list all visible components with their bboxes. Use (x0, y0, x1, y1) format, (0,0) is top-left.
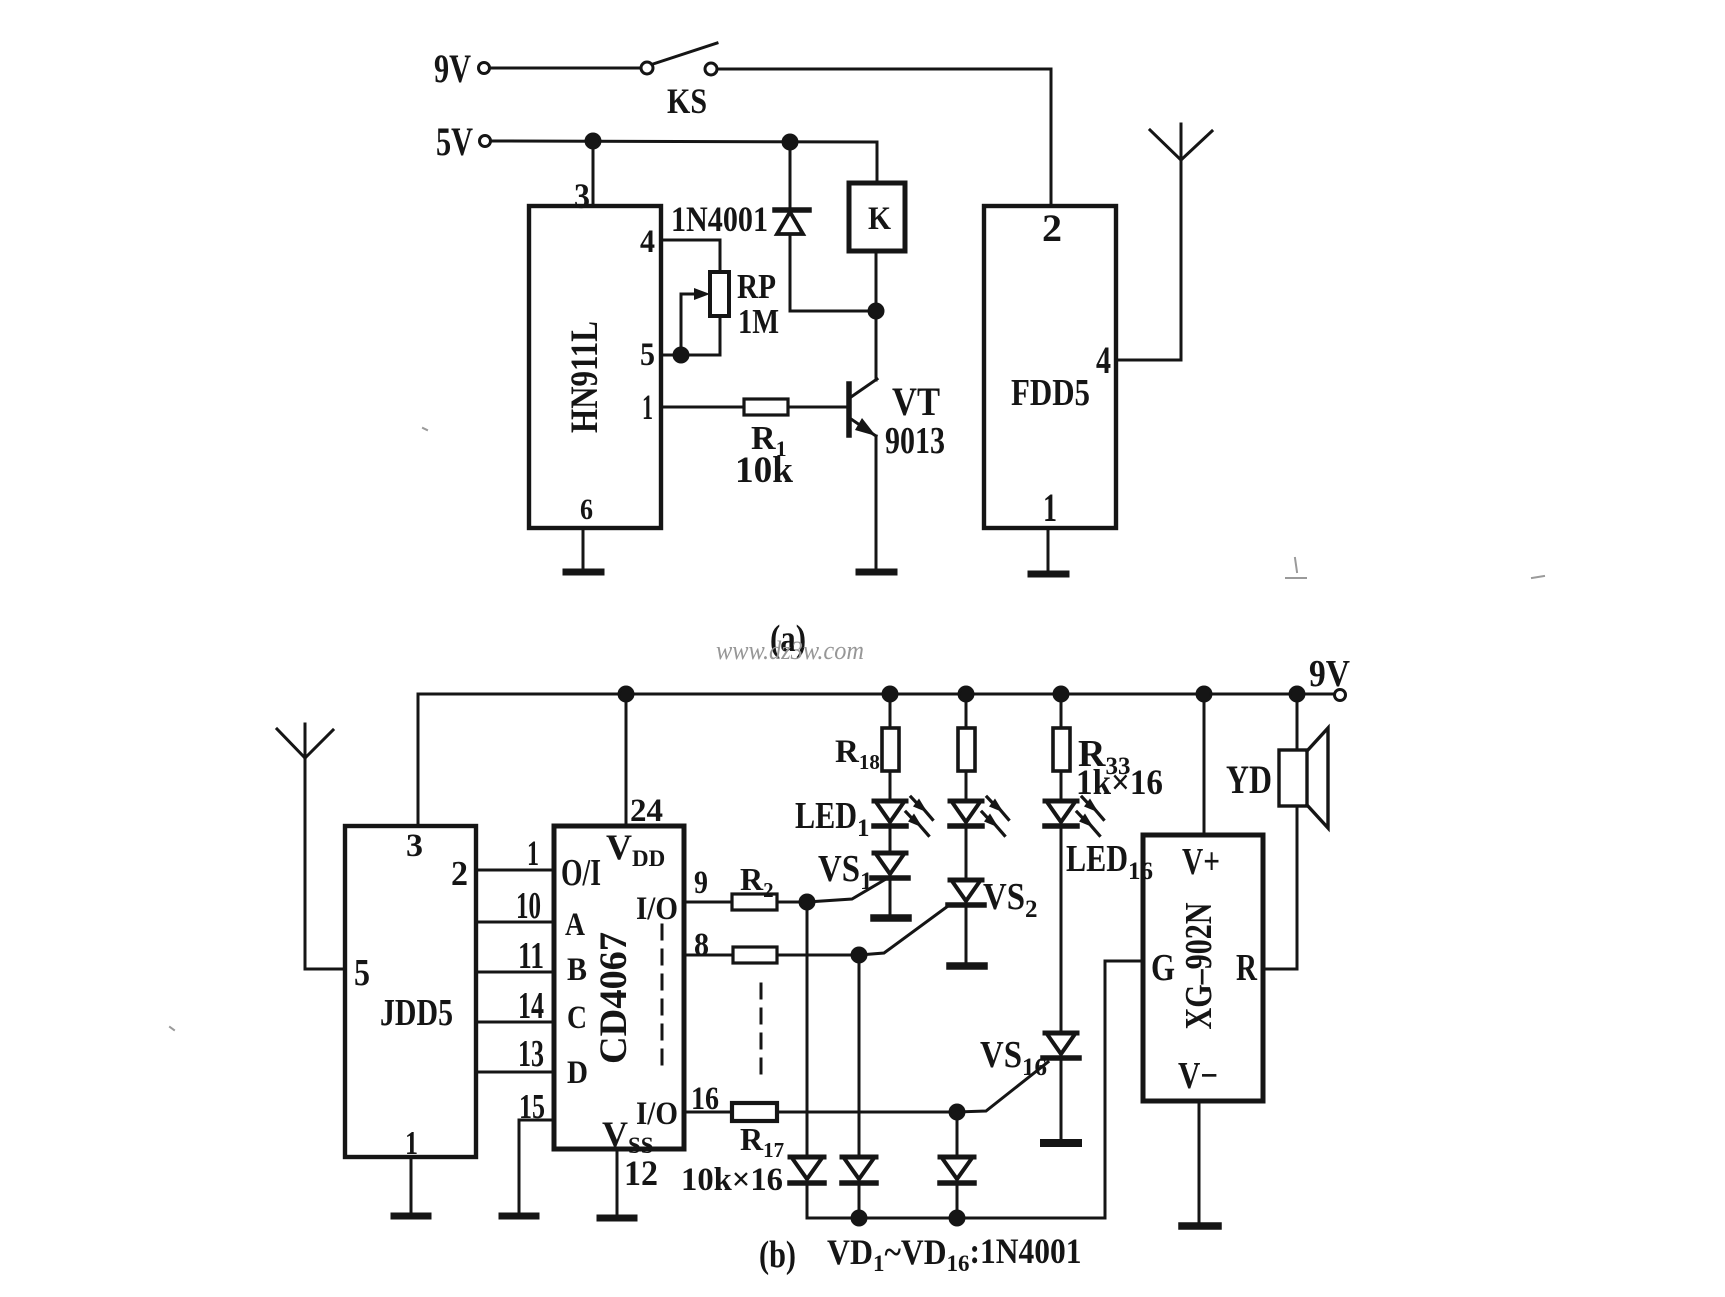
svg-text:5V: 5V (436, 119, 473, 164)
junction bus V+ (1197, 687, 1211, 701)
ground under XG-902N (1182, 1222, 1218, 1230)
junction node2 (852, 948, 866, 962)
wire VD16 to bottom rail (956, 1184, 959, 1218)
dashed line between rows (760, 984, 763, 1076)
wire pin2 to O/I (476, 869, 554, 872)
wire VD2 to bottom rail (858, 1184, 861, 1218)
svg-text:16: 16 (691, 1081, 719, 1117)
wire VS1 cathode (889, 880, 892, 913)
svg-text:5: 5 (354, 952, 370, 994)
wire R1 to VT base (788, 406, 847, 409)
svg-text:HN911L: HN911L (563, 321, 606, 433)
ground under pin12 (600, 1215, 634, 1222)
svg-text:VD1~VD16:1N4001: VD1~VD16:1N4001 (827, 1231, 1082, 1276)
svg-text:K: K (868, 201, 891, 237)
wire R19 to LED2 (965, 771, 968, 801)
wire LED16 to VS16 (1060, 828, 1063, 1033)
svg-text:1M: 1M (738, 302, 779, 341)
ground bar under VS1 (874, 914, 908, 922)
wire VS2 cathode (965, 907, 968, 961)
wire JDD5 pin1 to ground (410, 1157, 413, 1212)
svg-text:KS: KS (667, 81, 707, 121)
svg-text:B: B (567, 952, 587, 988)
junction on 5V rail at diode (783, 135, 797, 149)
svg-text:www.dz3w.com: www.dz3w.com (716, 636, 864, 665)
svg-text:24: 24 (630, 793, 663, 829)
ground under HN911L (566, 569, 601, 576)
wire pin1 to R1 (661, 406, 744, 409)
junction node1 (800, 895, 814, 909)
resistor R33 (1053, 728, 1070, 771)
wire diode bottom to collector node (790, 310, 876, 313)
svg-text:RP: RP (737, 267, 776, 306)
thyristor VS2 (859, 880, 984, 955)
wire pin3 of HN911L (592, 141, 595, 206)
svg-text:13: 13 (518, 1033, 544, 1075)
junction on 5V rail at pin3 (586, 134, 600, 148)
svg-text:14: 14 (518, 985, 544, 1027)
IC JDD5 box (345, 826, 476, 1157)
wire V+ to bus (1203, 694, 1206, 835)
wire R33 to LED16 (1060, 771, 1063, 801)
stray scan marks (170, 428, 1544, 1030)
wire 9V to switch (490, 67, 641, 70)
wire RP bottom to pin5 (719, 316, 722, 355)
resistor R8 (733, 947, 777, 963)
resistor R17 (732, 1103, 777, 1121)
svg-text:2: 2 (1042, 207, 1062, 250)
svg-text:O/I: O/I (561, 852, 601, 894)
branch 1: wire bus to R18 (889, 694, 892, 728)
wire switch to FDD5 pin2 (717, 69, 1051, 206)
node 5V terminal (480, 136, 491, 147)
branch 2: wire bus to R19 (965, 694, 968, 728)
svg-text:YD: YD (1226, 757, 1272, 802)
IC CD4067 box (554, 826, 684, 1149)
wire C pin14 (476, 1021, 554, 1024)
svg-text:10k: 10k (735, 450, 793, 491)
svg-text:VS16: VS16 (980, 1034, 1047, 1081)
svg-text:VT: VT (892, 379, 940, 424)
junction pin5 (674, 348, 688, 362)
wire 5V to K top (876, 142, 879, 183)
svg-text:1: 1 (642, 387, 653, 427)
wire pin4 to antenna (1116, 160, 1181, 360)
svg-text:R17: R17 (740, 1121, 784, 1162)
svg-text:4: 4 (1096, 339, 1111, 382)
wire V- to ground (1198, 1101, 1201, 1222)
resistor R2 (732, 894, 777, 910)
wire VS16 cathode (1060, 1060, 1063, 1138)
relay coil K (849, 183, 905, 251)
diode VD2 (842, 1157, 876, 1183)
wire pin16 to R17 (684, 1111, 732, 1114)
svg-text:A: A (565, 907, 585, 943)
junction bus R33 (1054, 687, 1068, 701)
svg-text:(b): (b) (759, 1234, 796, 1276)
junction VD2 bottom (852, 1211, 866, 1225)
svg-text:9013: 9013 (885, 420, 945, 462)
wire node16 down to VD16 (956, 1112, 959, 1157)
node 9V terminal (b) (1335, 690, 1346, 701)
svg-text:R: R (1236, 947, 1257, 989)
resistor R18 (882, 728, 899, 771)
svg-text:8: 8 (694, 927, 709, 963)
svg-text:XG–902N: XG–902N (1178, 903, 1220, 1030)
svg-text:10: 10 (516, 885, 541, 927)
wire LED2 to VS2 (965, 828, 968, 880)
wire speaker to bus (1296, 694, 1299, 750)
LED LED1 (874, 797, 933, 836)
node 9V terminal (479, 63, 490, 74)
wire LED1 to VS1 (889, 828, 892, 853)
wire 9V bus (418, 694, 1334, 826)
wiper arrow of RP (681, 294, 697, 355)
ground under JDD5 (394, 1213, 428, 1220)
ground bar under VS2 (950, 962, 984, 970)
ground under pin15 (502, 1213, 536, 1220)
wire R pin to speaker (1263, 806, 1297, 969)
svg-text:V+: V+ (1182, 841, 1220, 883)
svg-text:3: 3 (574, 176, 590, 216)
LED LED2 (950, 797, 1009, 836)
wire antenna to JDD5 pin5 (305, 968, 345, 971)
svg-text:1: 1 (527, 833, 539, 873)
svg-text:V−: V− (1178, 1055, 1218, 1097)
svg-text:JDD5: JDD5 (380, 992, 453, 1034)
transistor VT 9013 (849, 379, 877, 436)
wire R17 to node16 (777, 1111, 957, 1114)
svg-text:FDD5: FDD5 (1011, 372, 1090, 414)
wire node1 down to VD1 (806, 902, 809, 1157)
svg-text:11: 11 (518, 935, 544, 977)
ground under VT (859, 569, 894, 576)
wire R18 to LED1 (889, 771, 892, 801)
svg-text:VDD: VDD (606, 827, 665, 871)
svg-text:3: 3 (406, 828, 423, 864)
switch KS (641, 43, 717, 75)
thyristor VS1 (807, 853, 908, 902)
svg-text:15: 15 (519, 1087, 545, 1126)
wire K bottom to collector node (875, 251, 878, 311)
diode 1N4001 (775, 142, 809, 311)
svg-text:5: 5 (640, 337, 655, 373)
wire A pin10 (476, 921, 554, 924)
svg-text:1: 1 (1043, 485, 1057, 530)
svg-text:CD4067: CD4067 (592, 932, 635, 1064)
svg-text:12: 12 (624, 1153, 658, 1193)
svg-text:1k×16: 1k×16 (1076, 762, 1163, 802)
svg-text:1N4001: 1N4001 (671, 199, 768, 239)
wire pin5 (661, 354, 720, 357)
svg-text:9: 9 (694, 865, 708, 901)
svg-text:G: G (1151, 947, 1175, 989)
branch 3: wire bus to R33 (1060, 694, 1063, 728)
IC FDD5 box (984, 206, 1116, 528)
potentiometer RP 1M (710, 272, 729, 316)
speaker YD (1279, 728, 1328, 828)
svg-text:D: D (567, 1055, 588, 1091)
junction node16 (950, 1105, 964, 1119)
wire R2 to node1 (777, 901, 807, 904)
wire 5V rail (491, 141, 877, 142)
junction bus R18 (883, 687, 897, 701)
svg-text:VS1: VS1 (818, 848, 873, 895)
svg-text:4: 4 (640, 224, 655, 260)
svg-text:R2: R2 (740, 861, 774, 902)
svg-text:LED1: LED1 (795, 795, 870, 842)
wire R8 to node2 (777, 954, 859, 957)
junction bus speaker (1290, 687, 1304, 701)
svg-text:I/O: I/O (636, 1096, 678, 1132)
ground bar under VS16 (1044, 1139, 1078, 1147)
LED LED16 (1045, 797, 1104, 836)
IC HN911L box (529, 206, 661, 528)
wire VD1 to bottom rail (806, 1184, 809, 1218)
ground under FDD5 (1031, 571, 1066, 578)
wire bottom rail to G pin (807, 961, 1143, 1218)
diode VD1 (790, 1157, 824, 1183)
svg-text:9V: 9V (1309, 653, 1350, 695)
junction bus R-mid (959, 687, 973, 701)
thyristor VS16 (957, 1033, 1079, 1112)
wire pin9 to R2 (684, 901, 732, 904)
wire pin15 to ground (519, 1120, 554, 1212)
diode VD16 (940, 1157, 974, 1183)
wire D pin13 (476, 1071, 554, 1074)
IC XG-902N box (1143, 835, 1263, 1101)
dashed line inside CD4067 (661, 925, 664, 1064)
junction collector node (869, 304, 883, 318)
wire pin8 to R8 (684, 954, 733, 957)
svg-text:VS2: VS2 (983, 876, 1038, 923)
svg-text:6: 6 (580, 493, 593, 526)
svg-text:9V: 9V (434, 46, 471, 91)
svg-text:LED16: LED16 (1066, 838, 1153, 885)
antenna (a) (1150, 124, 1212, 160)
svg-text:I/O: I/O (636, 891, 678, 927)
wire B pin11 (476, 971, 554, 974)
junction VD16 bottom (950, 1211, 964, 1225)
svg-text:C: C (567, 1000, 587, 1036)
wire pin6 to ground (582, 528, 585, 569)
wire pin4 to RP (661, 240, 720, 272)
svg-text:2: 2 (451, 854, 468, 893)
wire pin1 to ground (1047, 528, 1050, 571)
junction bus pin24 (619, 687, 633, 701)
svg-text:R18: R18 (835, 734, 880, 774)
antenna (b) (277, 724, 333, 969)
wire VT emitter (875, 436, 878, 569)
wire pin24 to bus (625, 694, 628, 826)
resistor R1 10k (744, 399, 788, 415)
resistor R19 (958, 728, 975, 771)
wire VT collector (875, 311, 878, 380)
svg-text:1: 1 (405, 1125, 418, 1162)
wire pin12 to ground (616, 1149, 619, 1214)
wire node2 down to VD2 (858, 955, 861, 1157)
svg-text:10k×16: 10k×16 (681, 1162, 783, 1198)
